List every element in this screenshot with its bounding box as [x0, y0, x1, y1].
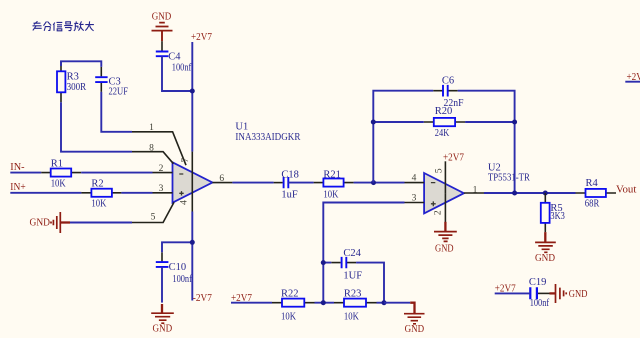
sheet title text 差分信号放大	[33, 21, 94, 31]
U1 pin 2	[153, 164, 173, 174]
capacitor C19	[529, 277, 550, 309]
U1 pin 6	[212, 174, 232, 184]
U2 pin 3	[405, 194, 425, 204]
wire C3 to pin1	[101, 92, 132, 132]
svg-text:GND: GND	[435, 243, 454, 255]
wire +2V7 to C19	[495, 292, 531, 294]
svg-text:GND: GND	[569, 288, 588, 300]
分	[44, 22, 52, 31]
wire R20 row	[373, 121, 514, 123]
junction rail/C10	[190, 240, 195, 245]
junction R21 node	[371, 180, 376, 185]
svg-text:C19: C19	[529, 277, 547, 288]
power port +2V7 at C19	[495, 282, 516, 294]
U2 pin 5	[434, 161, 445, 193]
resistor R1	[41, 158, 81, 189]
svg-text:3: 3	[159, 184, 164, 194]
U1 pin 8	[132, 144, 173, 164]
junction R20 left	[371, 120, 376, 125]
svg-text:2: 2	[433, 210, 443, 215]
net label Vout	[616, 184, 636, 196]
capacitor C24	[331, 248, 362, 281]
junction R22/R23	[321, 300, 326, 305]
U1 pin 3	[153, 184, 173, 194]
svg-text:C18: C18	[281, 170, 299, 181]
svg-text:R20: R20	[435, 106, 453, 117]
wire R22 row	[231, 302, 334, 304]
capacitor C3	[95, 67, 128, 97]
resistor R4	[576, 178, 617, 209]
wire R3/C3 top	[61, 61, 101, 67]
svg-text:2: 2	[159, 164, 164, 174]
U1 pin 7	[181, 152, 192, 183]
svg-text:+2V7: +2V7	[443, 151, 464, 163]
svg-text:GND: GND	[535, 252, 555, 264]
power port +2V top right	[625, 71, 640, 83]
svg-text:R21: R21	[323, 170, 341, 181]
svg-text:6: 6	[219, 174, 224, 184]
wire C4 to rail	[162, 56, 192, 91]
svg-text:10K: 10K	[51, 179, 66, 190]
junction rail/C4	[190, 89, 195, 94]
U1 pin 5	[132, 202, 174, 222]
resistor R21	[314, 170, 354, 201]
svg-text:8: 8	[149, 144, 154, 154]
wire IN- to R1	[10, 172, 41, 174]
power port -2V7 bottom of rail	[193, 292, 213, 304]
port IN+	[10, 181, 25, 193]
power port +2V7 at R22	[231, 292, 252, 304]
svg-text:U1: U1	[235, 121, 248, 132]
U2 pin 1	[464, 185, 484, 195]
resistor R2	[81, 179, 121, 210]
大	[85, 21, 94, 30]
svg-text:10K: 10K	[323, 189, 338, 200]
svg-text:1UF: 1UF	[343, 270, 362, 281]
power port GND below R5	[535, 232, 556, 264]
svg-text:GND: GND	[152, 323, 172, 335]
svg-text:Vout: Vout	[616, 184, 636, 196]
svg-text:INA333AIDGKR: INA333AIDGKR	[235, 132, 300, 143]
junction output/feedback	[512, 191, 517, 196]
op-amp U1	[173, 121, 301, 202]
capacitor C18	[274, 170, 299, 201]
svg-text:4: 4	[412, 174, 417, 184]
svg-text:22UF: 22UF	[109, 86, 129, 97]
power port GND right of R23	[384, 303, 425, 335]
resistor R5	[541, 193, 565, 232]
svg-text:C4: C4	[168, 51, 181, 62]
capacitor C6	[433, 76, 463, 109]
U1 pin 1	[132, 123, 186, 165]
wire pin6 to C18	[232, 182, 273, 184]
svg-text:5: 5	[434, 168, 444, 173]
wire R3 to pin8	[61, 102, 132, 151]
号	[64, 22, 72, 31]
svg-text:-2V7: -2V7	[193, 292, 213, 304]
power port GND below C10	[151, 304, 174, 335]
wire R21 to U2 pin4	[354, 182, 405, 184]
svg-text:+2V7: +2V7	[191, 31, 212, 43]
svg-text:4: 4	[179, 200, 189, 205]
junction output/R5	[543, 191, 548, 196]
svg-text:5: 5	[151, 212, 156, 222]
power port GND left	[30, 212, 71, 233]
junction C24 left	[321, 260, 326, 265]
wire U2 pin3 branch	[323, 203, 404, 303]
svg-text:1: 1	[473, 185, 478, 195]
svg-text:C6: C6	[442, 76, 454, 87]
wire GND to pin5	[70, 222, 132, 224]
svg-text:10K: 10K	[344, 311, 359, 322]
svg-text:GND: GND	[405, 323, 425, 335]
svg-text:IN-: IN-	[10, 161, 25, 173]
wire C24 branch	[323, 263, 384, 303]
svg-text:R23: R23	[344, 289, 362, 300]
svg-text:300R: 300R	[67, 82, 87, 93]
power port +2V7 at U2 pin5	[443, 151, 464, 163]
svg-text:TP5531-TR: TP5531-TR	[488, 172, 530, 183]
wire rail to C10	[162, 242, 192, 252]
resistor R23	[334, 289, 384, 323]
power port GND below U2	[434, 222, 457, 255]
svg-text:R4: R4	[586, 178, 599, 189]
放	[74, 21, 84, 30]
svg-text:R2: R2	[91, 179, 103, 190]
resistor R20	[424, 106, 465, 139]
U2 pin 4	[405, 174, 425, 184]
resistor R3	[57, 61, 86, 102]
差	[33, 21, 42, 30]
svg-text:68R: 68R	[585, 198, 600, 209]
svg-text:100nf: 100nf	[530, 298, 550, 309]
wire output node	[484, 192, 576, 194]
svg-text:C10: C10	[169, 262, 187, 273]
capacitor C4	[156, 41, 192, 73]
svg-text:GND: GND	[30, 217, 51, 229]
svg-text:3: 3	[412, 194, 417, 204]
svg-text:C24: C24	[343, 248, 361, 259]
wire R2 to pin3	[121, 192, 152, 194]
svg-text:R1: R1	[51, 158, 63, 169]
power port GND top	[152, 10, 173, 41]
wire +2V7 vertical rail	[191, 42, 193, 301]
svg-text:1uF: 1uF	[281, 190, 298, 201]
power port +2V7 top	[191, 31, 212, 43]
信	[53, 22, 62, 30]
svg-text:100nf: 100nf	[172, 274, 192, 285]
svg-text:100nf: 100nf	[172, 62, 192, 73]
wire C6 feedback loop	[373, 91, 514, 193]
wire IN+ to R2	[10, 192, 81, 194]
port IN-	[10, 161, 25, 173]
wire C18 to R21	[288, 182, 313, 184]
svg-text:GND: GND	[152, 10, 172, 22]
op-amp U2	[424, 162, 530, 213]
U1 pin 4	[179, 183, 192, 212]
power port GND right of C19	[550, 284, 588, 303]
svg-text:10K: 10K	[281, 311, 296, 322]
junction R20 right	[512, 120, 517, 125]
svg-text:IN+: IN+	[10, 181, 25, 193]
svg-text:10K: 10K	[91, 199, 106, 210]
resistor R22	[272, 289, 315, 323]
svg-text:24K: 24K	[435, 128, 450, 139]
U2 pin 2	[433, 193, 445, 222]
junction R23/C24	[382, 300, 387, 305]
capacitor C10	[156, 252, 192, 302]
wire R1 to pin2	[81, 172, 152, 174]
svg-text:7: 7	[181, 158, 191, 163]
svg-text:R22: R22	[281, 289, 299, 300]
svg-text:3K3: 3K3	[550, 211, 565, 222]
svg-text:1: 1	[149, 123, 154, 133]
